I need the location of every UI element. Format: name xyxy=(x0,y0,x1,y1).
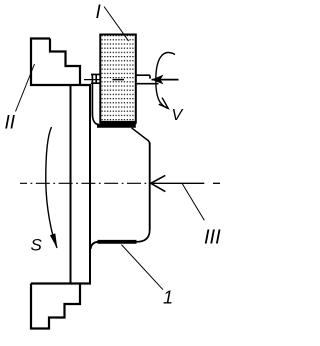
leader II xyxy=(16,64,35,112)
machined face 1 (bottom thick line) xyxy=(98,240,137,244)
workpiece disc right face xyxy=(89,85,91,284)
infeed arrow at spindle xyxy=(152,75,164,85)
axis arrowhead xyxy=(151,175,166,191)
main axis centerline xyxy=(20,182,150,184)
hub top chamfer xyxy=(132,128,150,144)
svg-text:III: III xyxy=(204,227,221,249)
wheel rotation arc V xyxy=(156,53,175,109)
chuck jaw top (II) xyxy=(31,39,91,86)
feed arrowhead S xyxy=(50,233,58,248)
svg-text:S: S xyxy=(31,236,43,255)
hub outer cylinder xyxy=(149,143,151,231)
leader I xyxy=(104,7,129,42)
hub bottom fillet left xyxy=(91,242,99,249)
svg-text:1: 1 xyxy=(163,288,173,308)
svg-text:V: V xyxy=(172,107,184,124)
axis arrow III shaft xyxy=(151,182,205,184)
axis end dash xyxy=(213,182,220,184)
leader III xyxy=(182,183,204,220)
rotation arrowhead V xyxy=(159,98,168,109)
wheel axis line left xyxy=(84,79,101,81)
wheel spindle left hub xyxy=(91,74,101,83)
leader 1 xyxy=(121,245,163,290)
workpiece disc left face xyxy=(70,85,72,284)
grinding wheel I body xyxy=(100,35,136,123)
hub top fillet xyxy=(92,114,98,125)
wheel axis dash inside wheel xyxy=(113,79,125,81)
svg-text:I: I xyxy=(96,2,102,23)
chuck jaw bottom (II) xyxy=(31,284,91,329)
feed arc S xyxy=(46,127,57,248)
svg-text:II: II xyxy=(5,113,16,134)
wheel spindle right hub xyxy=(135,75,159,84)
hub wall line xyxy=(91,74,93,114)
grinding wheel contact edge xyxy=(100,121,137,124)
hub bottom fillet right xyxy=(137,230,150,242)
ground face 1 (top thick line) xyxy=(97,124,136,128)
